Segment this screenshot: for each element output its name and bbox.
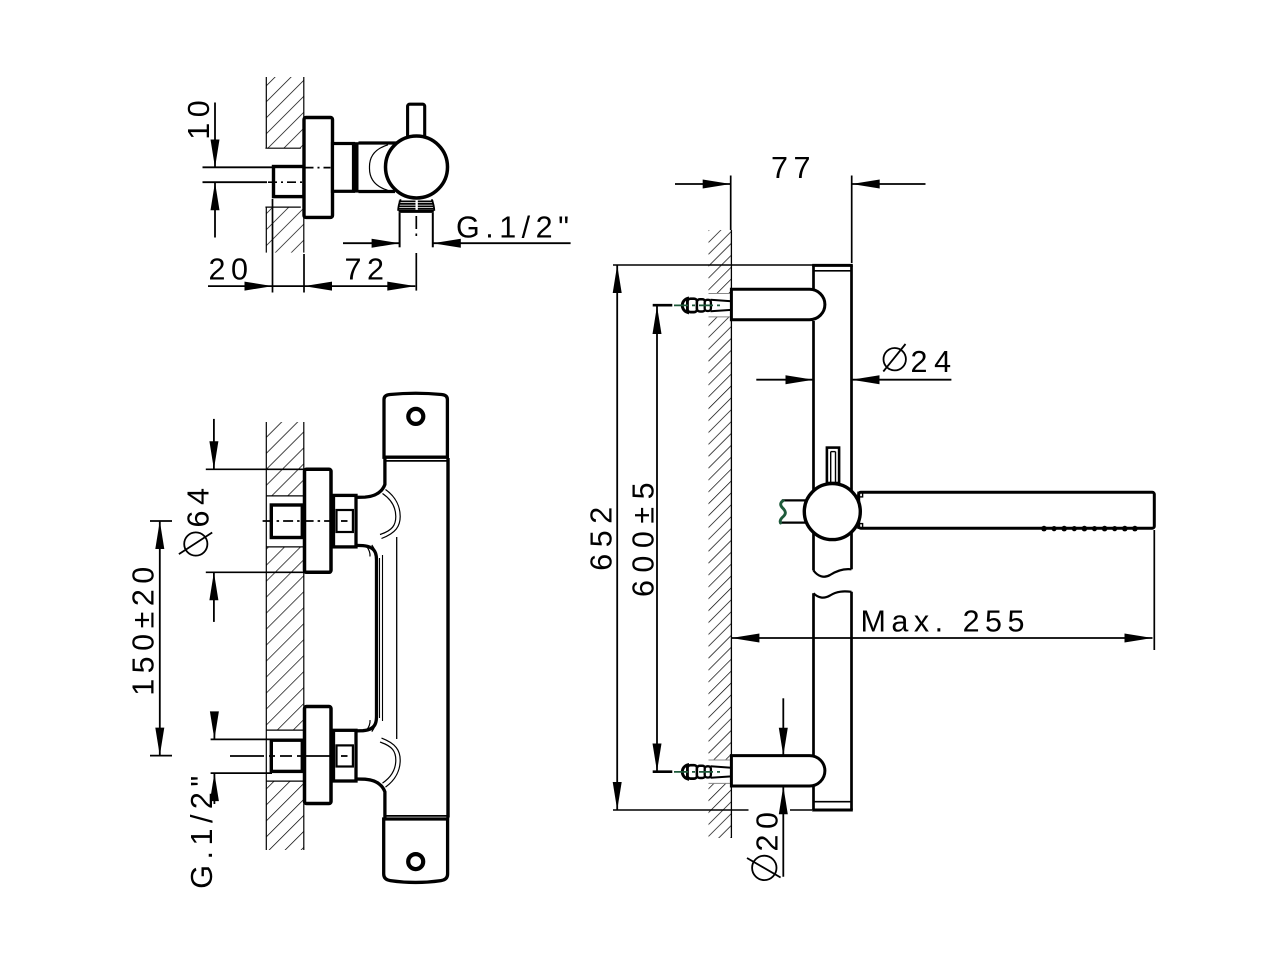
rail top cap xyxy=(812,264,853,267)
wall hatch band xyxy=(709,230,732,838)
hose stub xyxy=(782,499,807,501)
dimension 10 xyxy=(182,95,220,238)
svg-text:20: 20 xyxy=(209,253,254,287)
body inner thin edge xyxy=(396,537,398,739)
wall hatch lower xyxy=(265,207,303,253)
600 bottom tick xyxy=(653,770,673,773)
wand junction notches xyxy=(858,492,863,497)
upper inlet fitting xyxy=(271,505,302,538)
bottom wall bracket xyxy=(731,756,824,786)
svg-text:64: 64 xyxy=(182,483,216,528)
spray nozzle dots xyxy=(1041,526,1138,532)
outlet threads xyxy=(398,199,434,211)
lower set screw xyxy=(337,745,353,766)
centerline pipe axis xyxy=(268,181,306,183)
knob circle xyxy=(386,136,448,198)
dimension 77 xyxy=(675,151,926,263)
top screw xyxy=(682,298,731,312)
wall hatch upper xyxy=(265,77,303,148)
dimension d64 xyxy=(179,419,309,622)
dimension 652 xyxy=(585,265,813,810)
dimension d20 xyxy=(747,698,788,880)
rail tube xyxy=(814,265,852,810)
lower supply stub xyxy=(211,738,272,740)
dimension 150+-20 xyxy=(127,521,173,756)
600 top tick xyxy=(653,304,673,307)
top screw centerline (green) xyxy=(674,304,721,306)
bottom plate hole xyxy=(408,854,423,869)
mid tube left edge xyxy=(356,545,377,731)
rail break waves xyxy=(814,569,852,577)
outlet pipe xyxy=(400,213,433,247)
svg-text:72: 72 xyxy=(345,253,390,287)
wall hatch band xyxy=(266,422,304,850)
upper nut xyxy=(334,495,357,547)
upper centerline xyxy=(263,520,333,522)
centerline valve axis xyxy=(305,167,331,169)
valve body xyxy=(359,143,398,192)
neck xyxy=(333,144,354,192)
svg-text:G.1/2": G.1/2" xyxy=(456,211,574,245)
lower centerline xyxy=(230,755,333,757)
lower horn bottom edge xyxy=(356,779,385,818)
bottom plate xyxy=(384,819,448,882)
lower nut xyxy=(334,730,357,781)
top wall bracket xyxy=(731,289,824,319)
hand shower wand xyxy=(859,492,1155,528)
handle stem xyxy=(408,104,425,141)
svg-text:150±20: 150±20 xyxy=(127,561,161,696)
joint band xyxy=(353,142,358,192)
lower inlet fitting xyxy=(271,740,302,771)
outlet centerline xyxy=(415,216,417,291)
svg-text:10: 10 xyxy=(182,95,216,140)
dimension 600+-5 xyxy=(627,306,662,772)
bottom screw centerline (green) xyxy=(674,771,721,773)
body bottom joint line xyxy=(386,815,447,817)
svg-text:G.1/2": G.1/2" xyxy=(185,770,219,888)
upper flange xyxy=(305,469,332,572)
dimension Max. 255 xyxy=(731,530,1154,650)
hose break squiggle (green) xyxy=(780,501,785,523)
slider stem xyxy=(827,448,839,484)
svg-text:77: 77 xyxy=(771,151,816,185)
upper set screw xyxy=(337,510,353,532)
mid tube inner lines xyxy=(379,558,381,718)
slider ball xyxy=(804,484,860,540)
upper horn arcs xyxy=(367,490,401,557)
bottom screw xyxy=(682,765,731,779)
svg-text:20: 20 xyxy=(751,807,785,852)
inlet fitting square xyxy=(274,167,305,197)
dimension G.1/2 lower xyxy=(185,711,219,888)
rail bottom cap xyxy=(814,801,852,803)
body right edge xyxy=(446,458,449,818)
lower flange xyxy=(305,707,332,804)
dimension d24 xyxy=(756,344,957,384)
svg-text:Max. 255: Max. 255 xyxy=(861,605,1030,639)
dimension G.1/2" xyxy=(343,211,574,248)
supply pipe lines xyxy=(203,166,274,168)
svg-text:652: 652 xyxy=(585,500,619,570)
top plate xyxy=(384,393,447,457)
svg-text:600±5: 600±5 xyxy=(627,475,661,597)
lower horn arcs xyxy=(367,720,401,787)
dimension 20 and 72 xyxy=(208,199,415,293)
upper horn top edge xyxy=(356,459,385,498)
svg-text:24: 24 xyxy=(911,345,958,379)
flange plate xyxy=(304,118,333,218)
body top joint line xyxy=(386,460,447,462)
top plate hole xyxy=(408,409,423,424)
